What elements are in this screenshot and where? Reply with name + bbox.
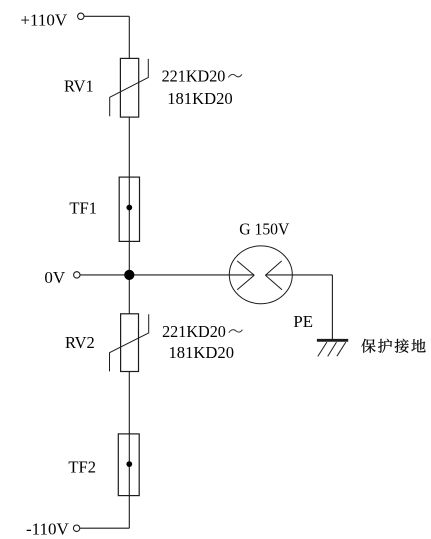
svg-text:+110V: +110V xyxy=(20,11,67,30)
svg-text:TF2: TF2 xyxy=(68,457,96,476)
svg-text:G 150V: G 150V xyxy=(239,220,290,239)
svg-text:PE: PE xyxy=(293,312,313,331)
svg-text:RV1: RV1 xyxy=(64,76,94,95)
svg-text:0V: 0V xyxy=(44,268,66,287)
svg-text:-110V: -110V xyxy=(26,520,70,539)
svg-text:181KD20: 181KD20 xyxy=(169,343,235,362)
svg-text:TF1: TF1 xyxy=(69,198,97,217)
svg-text:RV2: RV2 xyxy=(65,333,95,352)
svg-text:221KD20: 221KD20 xyxy=(162,67,226,86)
svg-text:221KD20: 221KD20 xyxy=(162,322,226,341)
svg-text:181KD20: 181KD20 xyxy=(167,89,233,108)
